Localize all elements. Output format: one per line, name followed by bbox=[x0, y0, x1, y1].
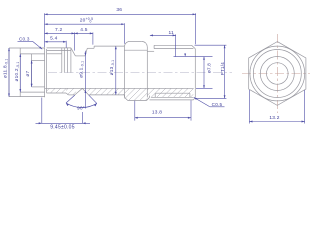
bore line section bbox=[45, 87, 194, 89]
end view cone circle bbox=[267, 63, 289, 85]
end view chamfer circle bbox=[250, 46, 305, 101]
insert sleeve outline bbox=[9, 48, 45, 98]
dim dia 10.2 insert bbox=[14, 54, 21, 92]
dim 90 degree cone angle bbox=[66, 95, 97, 111]
svg-text:90°: 90° bbox=[77, 106, 85, 111]
dim 36 overall bbox=[45, 7, 196, 47]
centerline main view bbox=[48, 72, 232, 74]
dim dia 7 insert bbox=[25, 60, 32, 87]
svg-text:7.2: 7.2 bbox=[55, 27, 63, 33]
dim 7.2 bbox=[45, 27, 75, 51]
dim dia 9.1 groove bbox=[79, 51, 87, 109]
end view thread crest circle bbox=[253, 50, 301, 98]
svg-text:PT1/4: PT1/4 bbox=[220, 62, 225, 76]
threaded end outline bbox=[147, 45, 195, 100]
svg-text:11: 11 bbox=[168, 30, 174, 36]
end view hexagon bbox=[249, 42, 306, 106]
svg-text:C0.5: C0.5 bbox=[212, 102, 223, 107]
svg-text:9.45±0.05: 9.45±0.05 bbox=[50, 124, 74, 130]
dim C0.3 chamfer callout bbox=[18, 36, 43, 49]
dim PT1/4 thread bbox=[195, 45, 227, 98]
dim dia 11.8 insert bbox=[3, 48, 10, 97]
fitting left collar outline bbox=[47, 48, 75, 95]
dim 4.5 bbox=[75, 27, 93, 45]
svg-text:C0.3: C0.3 bbox=[19, 36, 30, 41]
centerline end view horizontal bbox=[242, 73, 311, 75]
end view bore circle bbox=[260, 57, 294, 91]
dim 20 +0.5 bbox=[45, 17, 125, 44]
svg-text:ø7: ø7 bbox=[25, 71, 30, 77]
svg-text:13.8: 13.8 bbox=[152, 110, 162, 116]
body bottom outer surface sectioned bbox=[75, 88, 89, 95]
svg-text:ø7.8: ø7.8 bbox=[206, 63, 211, 73]
dim 5.4 bbox=[45, 35, 67, 47]
svg-text:36: 36 bbox=[116, 7, 122, 13]
collar to body step bbox=[89, 46, 125, 97]
dim 13.8 bbox=[135, 100, 191, 120]
dim dia 7.8 bore bbox=[174, 57, 213, 89]
section hatch bottom half bbox=[47, 88, 194, 100]
dim 11 thread length bbox=[150, 30, 176, 57]
dim C0.5 chamfer callout bbox=[194, 97, 225, 107]
dim dia 13 body bbox=[109, 46, 117, 95]
svg-text:13.2: 13.2 bbox=[269, 115, 279, 121]
dim 9.45 +-0.05 bbox=[36, 98, 91, 131]
dim 13.2 across flats bbox=[249, 90, 304, 124]
centerline end view vertical bbox=[276, 34, 278, 113]
o-ring groove top profile bbox=[71, 48, 94, 56]
svg-text:4.5: 4.5 bbox=[80, 27, 88, 33]
leader arrow on bore extension bbox=[184, 54, 186, 57]
hex head side view bbox=[124, 41, 149, 100]
svg-text:5.4: 5.4 bbox=[50, 35, 58, 41]
